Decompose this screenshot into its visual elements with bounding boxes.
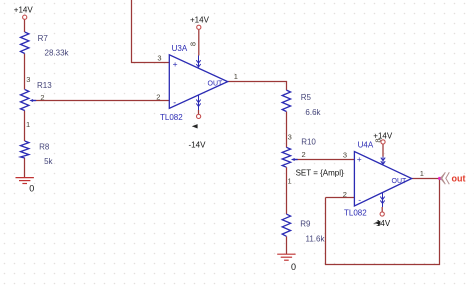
svg-text:U3A: U3A [172,44,188,53]
svg-text:11.6k: 11.6k [306,235,326,244]
svg-text:28.33k: 28.33k [45,49,70,58]
svg-text:R5: R5 [301,93,312,102]
svg-text:U4A: U4A [358,141,374,150]
svg-text:3: 3 [288,132,292,141]
svg-text:3: 3 [157,54,161,63]
svg-text:-14V: -14V [373,219,391,228]
svg-text:R13: R13 [37,81,52,90]
svg-text:1: 1 [234,72,238,81]
svg-text:2: 2 [156,93,160,102]
svg-text:-14V: -14V [189,141,207,150]
svg-text:1: 1 [288,176,292,185]
svg-text:+: + [173,59,178,69]
svg-text:R8: R8 [39,142,50,151]
svg-text:-: - [173,97,176,107]
svg-text:OUT: OUT [392,178,408,185]
svg-text:out: out [452,174,466,184]
svg-text:+14V: +14V [190,16,210,25]
svg-text:TL082: TL082 [344,209,367,218]
svg-text:+14V: +14V [14,5,34,14]
svg-text:2: 2 [40,93,44,102]
svg-text:3: 3 [26,75,30,84]
svg-text:1: 1 [26,120,30,129]
svg-text:8: 8 [374,138,383,142]
svg-text:1: 1 [420,169,424,178]
svg-text:TL082: TL082 [160,113,183,122]
svg-text:-: - [358,195,361,205]
svg-text:0: 0 [291,262,296,272]
svg-text:8: 8 [188,42,197,46]
svg-text:2: 2 [302,150,306,159]
svg-text:0: 0 [29,183,34,193]
svg-text:3: 3 [343,151,347,160]
svg-text:R7: R7 [38,34,49,43]
svg-text:5k: 5k [44,157,53,166]
svg-text:+: + [357,154,362,164]
svg-text:SET = {Ampl}: SET = {Ampl} [296,168,344,177]
svg-text:R10: R10 [301,138,316,147]
svg-text:OUT: OUT [208,81,224,88]
svg-text:2: 2 [343,190,347,199]
svg-text:R9: R9 [300,219,311,228]
svg-text:6.6k: 6.6k [305,108,321,117]
